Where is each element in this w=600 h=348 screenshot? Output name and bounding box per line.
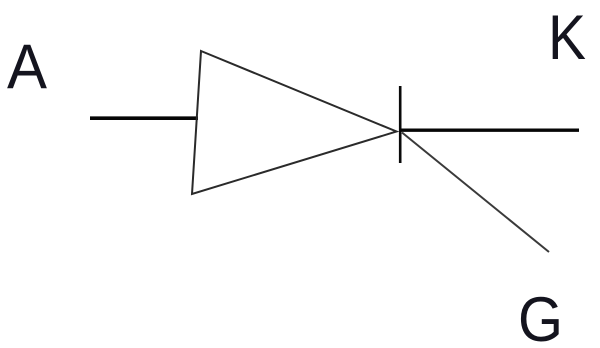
svg-text:K: K [548,3,586,73]
svg-text:A: A [7,32,47,102]
svg-text:G: G [518,285,563,348]
